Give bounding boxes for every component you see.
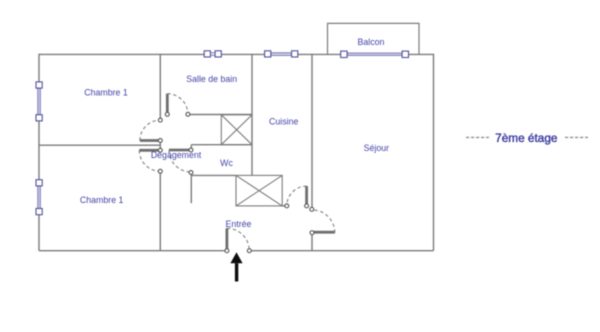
svg-text:Entrée: Entrée	[226, 219, 252, 229]
svg-text:Wc: Wc	[220, 158, 233, 168]
svg-text:Séjour: Séjour	[364, 143, 389, 153]
svg-text:Chambre 1: Chambre 1	[80, 195, 124, 205]
svg-text:Dégagement: Dégagement	[151, 150, 202, 160]
svg-text:7ème étage: 7ème étage	[495, 131, 558, 145]
svg-text:Balcon: Balcon	[358, 37, 385, 47]
svg-text:Chambre 1: Chambre 1	[84, 87, 128, 97]
svg-text:Salle de bain: Salle de bain	[186, 74, 237, 84]
svg-text:Cuisine: Cuisine	[269, 117, 298, 127]
